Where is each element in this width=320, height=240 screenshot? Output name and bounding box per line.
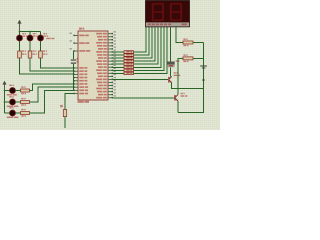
component X1 (small module on common 2) [167, 60, 179, 67]
microcontroller U1 PIC16F877A body [78, 31, 108, 100]
wire power rail top-left [20, 31, 41, 33]
resistor R10 (segment series) [124, 57, 134, 60]
wire R2 cathode to resistor [29, 41, 31, 51]
wire R6 to IC pin [30, 90, 75, 113]
wire display common 2 down [170, 27, 172, 62]
power terminal VCC (bottom-left) [2, 81, 6, 91]
wire Q2 emitter down [177, 101, 179, 113]
wire MCLR pin down [73, 51, 75, 59]
resistor R11 (segment series) [124, 60, 134, 63]
wire D6 to R5 [16, 101, 21, 103]
wire power rail bottom-left [4, 91, 6, 114]
wire IC pin to resistor R14 [112, 69, 124, 71]
junction dot rail at D4 [4, 90, 6, 92]
wire IC pin to Q1 base [112, 78, 168, 80]
wire R16 to right vertical net [193, 42, 204, 44]
IC left pin stubs and names (RA0-RA5, RE0-RE2) [73, 67, 88, 94]
wire anode stub D4 [5, 90, 10, 92]
wire Q1 collector join [170, 76, 173, 78]
label U1 [79, 28, 84, 30]
junction dot rail at D5 [4, 101, 6, 103]
wire R2 to RA1 [30, 58, 74, 71]
resistor R16 (common 1) [183, 39, 193, 47]
wire anode stub D1 [19, 32, 21, 36]
wire R11 up to display segment pin [134, 27, 155, 61]
resistor R13 (segment series) [124, 66, 134, 69]
resistor R15 (segment series) [124, 72, 134, 75]
wire R8 up to display segment pin [134, 27, 146, 52]
wire R3 cathode to resistor [40, 41, 42, 51]
transistor Q2 [174, 93, 187, 102]
resistor R2 [28, 50, 37, 58]
wire IC pin to resistor R13 [112, 66, 124, 68]
ground symbol (right net) [200, 66, 207, 68]
LED D3 [38, 33, 49, 41]
resistor R5 [21, 98, 30, 106]
LED D5 [7, 96, 18, 107]
junction dot right net [202, 79, 204, 81]
wire anode stub D5 [5, 101, 10, 103]
wire R4 to IC pin [30, 84, 75, 91]
wire IC pin to resistor R8 [112, 51, 124, 53]
LED D6 [7, 107, 18, 118]
wire right vertical to Q2 emitter [178, 43, 204, 113]
junction dot power rail at D2 [29, 31, 31, 33]
wire R9 up to display segment pin [134, 27, 149, 55]
label LED-RED value of D3 [46, 38, 54, 39]
wire D6 to R4 [16, 90, 21, 92]
wire R17 to right vertical net [193, 57, 204, 59]
capacitor C1 (on MCLR branch) [71, 58, 82, 64]
power terminal VCC (top-left) [17, 20, 21, 32]
resistor R9 (segment series) [124, 54, 134, 57]
wire capacitor down across rows [73, 64, 75, 91]
wire R14 up to display segment pin [134, 27, 164, 70]
7-segment display DISP1 (2-digit, common) [146, 1, 190, 27]
wire anode stub D3 [40, 32, 42, 36]
wire R5 to IC pin [30, 87, 75, 102]
wire IC pin to resistor R10 [112, 57, 124, 59]
wire R7 to bottom edge [64, 117, 66, 128]
resistor R12 (segment series) [124, 63, 134, 66]
wire R10 up to display segment pin [134, 27, 152, 58]
wire R15 up to display segment pin [134, 27, 167, 73]
wire R12 up to display segment pin [134, 27, 158, 64]
resistor R8 (segment series) [124, 51, 134, 54]
wire module to Q1 collector [170, 67, 172, 76]
IC right pin stubs, numbers and names (RB/RC/RD) [96, 31, 116, 98]
resistor R6 [21, 109, 30, 117]
wire IC pin to Q2 base [112, 97, 174, 99]
LED D2 [27, 33, 38, 41]
LED D4 [7, 85, 17, 96]
wire IC pin to resistor R11 [112, 60, 124, 62]
wire display common 1 to RA resistor [176, 27, 183, 43]
resistor R17 (common 2) [183, 54, 193, 62]
wire anode stub D6 [5, 112, 10, 114]
wire IC pin to resistor R9 [112, 54, 124, 56]
wire anode stub D2 [29, 32, 31, 36]
wire R1 cathode to resistor [19, 41, 21, 51]
wire R13 up to display segment pin [134, 27, 161, 67]
resistor R7 (vertical, below IC) [60, 105, 66, 117]
background grid [0, 0, 220, 130]
wire IC pin to resistor R15 [112, 72, 124, 74]
wire Q2 collector up to R17 [178, 58, 183, 94]
IC left pin stubs and names (OSC1, OSC2, MCLR) [70, 33, 91, 52]
junction dot power rail at D1 [19, 31, 21, 33]
label PIC16F877A under IC [78, 101, 90, 103]
resistor R3 [39, 50, 48, 58]
resistor R1 [18, 50, 27, 58]
wire R3 to RA0 [41, 58, 75, 68]
transistor Q1 [168, 72, 180, 83]
resistor R14 (segment series) [124, 69, 134, 72]
wire R1 to RA2 [20, 58, 75, 74]
wire RE2 pin down to R7 [65, 94, 74, 110]
wire IC pin to resistor R12 [112, 63, 124, 65]
LED D1 [17, 33, 28, 41]
wire Q1 emitter to right net [172, 83, 204, 89]
wire D6 to R6 [16, 112, 21, 114]
resistor R4 [21, 86, 30, 94]
